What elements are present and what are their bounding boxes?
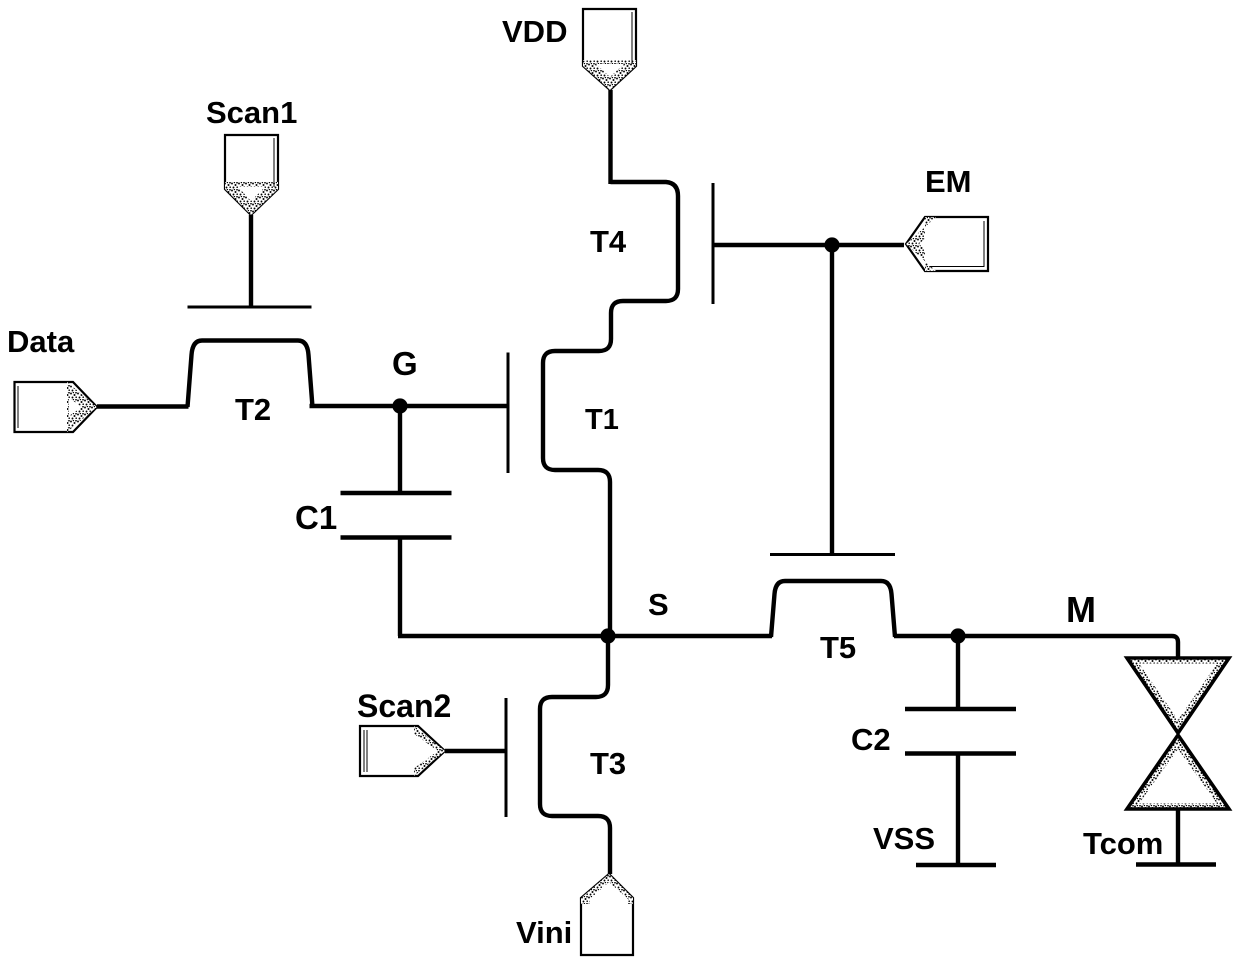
svg-text:M: M	[1066, 589, 1096, 630]
capacitor C2 plates	[905, 707, 1016, 712]
capacitor C1 plates	[341, 491, 452, 496]
wire Data to T2	[97, 404, 189, 408]
transistor T5 gate bar	[770, 553, 895, 556]
sensor Tcom top triangle	[1127, 658, 1229, 733]
transistor T5 channel hat	[771, 581, 895, 637]
svg-text:VDD: VDD	[502, 14, 567, 49]
terminal Scan2 flag	[360, 726, 445, 776]
transistor T1 gate bar	[507, 353, 510, 474]
transistor T2 gate bar	[188, 306, 312, 309]
svg-text:VSS: VSS	[873, 821, 935, 856]
svg-text:T4: T4	[590, 224, 627, 259]
terminal VDD flag	[583, 9, 636, 90]
transistor T3 gate bar	[505, 698, 508, 817]
wire C1 to S	[398, 538, 608, 637]
wire Scan2 to T3 gate	[445, 749, 506, 753]
wire VDD stem	[608, 90, 612, 184]
sensor Tcom bottom triangle	[1127, 735, 1229, 809]
wire T5 to M to sensor	[894, 636, 1178, 658]
svg-text:Scan1: Scan1	[206, 95, 297, 130]
wire EM junction to T5 gate	[830, 245, 834, 554]
Tcom terminal bar	[1136, 862, 1216, 867]
terminal EM flag	[906, 217, 988, 271]
svg-text:C2: C2	[851, 722, 891, 757]
node S	[600, 628, 615, 643]
svg-text:T5: T5	[820, 630, 856, 665]
svg-text:T1: T1	[585, 404, 619, 436]
terminal Data flag	[15, 382, 98, 432]
transistor T4 gate bar	[712, 183, 715, 304]
transistor T2 channel hat	[188, 341, 313, 408]
svg-text:EM: EM	[925, 164, 972, 199]
svg-text:Vini: Vini	[516, 915, 572, 950]
svg-text:Tcom: Tcom	[1083, 826, 1163, 861]
svg-text:T3: T3	[590, 746, 626, 781]
node G	[392, 398, 407, 413]
terminal Scan1 flag	[225, 135, 278, 215]
wire S to T5	[608, 634, 772, 638]
svg-text:S: S	[648, 587, 669, 622]
svg-text:Data: Data	[7, 324, 75, 359]
svg-text:G: G	[392, 345, 418, 382]
wire G to C1	[398, 406, 402, 493]
VSS terminal bar	[916, 863, 996, 868]
wire Tcom stem	[1176, 809, 1180, 864]
wire S to T3 to Vini (transistor T3 channel)	[540, 636, 610, 874]
svg-text:C1: C1	[295, 499, 337, 536]
transistor T4 channel + transistor T1 channel (shared zigzag wire)	[543, 182, 678, 636]
terminal Vini flag	[581, 874, 633, 955]
wire T2 to G to T1 gate	[310, 404, 509, 408]
wire EM line	[713, 243, 904, 247]
wire Scan1 stem	[249, 215, 253, 307]
wire C2 to VSS	[956, 754, 960, 866]
capacitor C2 stem top	[956, 636, 960, 709]
svg-text:T2: T2	[235, 392, 271, 427]
node EM junction	[824, 237, 839, 252]
node M	[950, 628, 965, 643]
svg-text:Scan2: Scan2	[357, 688, 451, 724]
